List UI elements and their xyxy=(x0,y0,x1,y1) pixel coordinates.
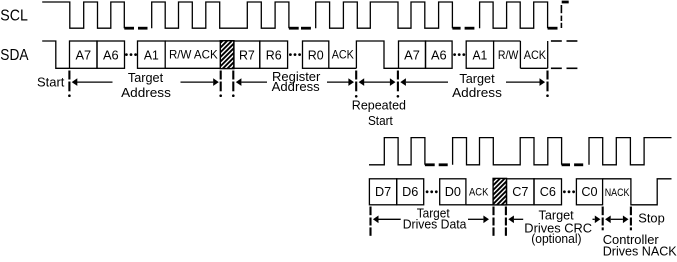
svg-text:A6: A6 xyxy=(103,48,119,63)
label Target Drives CRC (optional) xyxy=(524,208,592,246)
svg-text:Address: Address xyxy=(272,79,320,94)
svg-text:Address: Address xyxy=(452,85,502,100)
svg-text:C7: C7 xyxy=(512,184,528,199)
wire SCL row1 pulses R0,ACK,repeated-start,A7,A6 xyxy=(316,2,453,28)
ellipsis dots A6..A1 (2nd) xyxy=(453,53,465,56)
label Register Address xyxy=(272,69,321,94)
bit box D0 (data) xyxy=(440,179,466,205)
bit box C6 (CRC) xyxy=(534,179,562,205)
arrow target-address-1 right xyxy=(181,78,219,86)
node marker hatched-right (row2) xyxy=(505,207,507,236)
bit box A6 (target address 2) xyxy=(426,41,453,68)
arrow register-address left xyxy=(236,78,267,86)
svg-text:Target: Target xyxy=(459,71,495,86)
svg-text:R/W ACK: R/W ACK xyxy=(169,48,218,62)
svg-text:Start: Start xyxy=(368,113,393,128)
arrow target-address-2 left xyxy=(400,78,448,86)
wire SCL row1 pulses 1-3 (A7,A6) xyxy=(42,2,124,28)
bit box C0 (CRC) xyxy=(576,179,602,205)
svg-text:C0: C0 xyxy=(581,184,597,199)
node marker hatched-left (row2) xyxy=(492,207,494,236)
wire SCL row1 break dashes after R6 xyxy=(289,27,311,30)
node marker repeated-start-left xyxy=(355,71,358,98)
wire SCL row2 pulses D7,D6 xyxy=(369,138,425,165)
wire SCL row1 end bold low dash xyxy=(548,27,558,30)
bus cell R/W ACK (write) xyxy=(165,41,220,68)
arrow controller-drives-nack span xyxy=(605,216,628,224)
wire SCL row1 dashed continuation rising edge xyxy=(560,5,562,28)
wire SCL row1 break dashes after A6 xyxy=(124,27,147,30)
cell NACK high + stop condition (SDA falls then rises) xyxy=(603,179,672,205)
wire SDA repeated start (rise, high, fall while SCL high) xyxy=(356,41,398,68)
wire SDA row1 start condition (high then falling edge) xyxy=(42,41,69,68)
node marker hatched-left (row1) xyxy=(219,71,222,97)
net label SDA xyxy=(0,47,28,64)
arrow target-drives-crc right xyxy=(593,216,601,224)
svg-text:R0: R0 xyxy=(308,48,324,63)
svg-text:Drives NACK: Drives NACK xyxy=(603,243,677,257)
svg-text:D7: D7 xyxy=(375,184,391,199)
label Target Address (1) xyxy=(121,70,171,100)
wire SCL row2 break dashes after C6 xyxy=(562,163,584,166)
svg-text:Address: Address xyxy=(121,85,171,100)
wire SCL row2 pulses D0,ACK,C7,C6 xyxy=(453,138,562,165)
svg-text:Repeated: Repeated xyxy=(352,98,406,113)
svg-text:C6: C6 xyxy=(540,184,556,199)
wire SCL row1 pulses A1,R/W,ACK (2nd) xyxy=(480,2,548,28)
svg-text:Stop: Stop xyxy=(638,211,665,226)
arrow target-drives-crc left xyxy=(508,216,523,224)
svg-text:A1: A1 xyxy=(144,48,159,63)
bit box R0 (register address) xyxy=(303,41,329,68)
bit box R6 (register address) xyxy=(260,41,288,68)
node marker CRC-end xyxy=(602,207,604,231)
svg-text:R/W: R/W xyxy=(498,48,519,62)
arrow target-drives-data left xyxy=(373,216,401,224)
svg-text:Start: Start xyxy=(37,75,65,90)
cell ACK low after data xyxy=(466,186,493,205)
ellipsis dots R6..R0 xyxy=(289,53,301,56)
svg-text:A1: A1 xyxy=(472,48,487,63)
cell ACK low (2nd address) xyxy=(520,48,547,68)
svg-text:SDA: SDA xyxy=(0,47,28,64)
label Target Address (2) xyxy=(452,71,502,100)
wire SDA row1 end vertical xyxy=(547,41,549,68)
hatched break box (row1) xyxy=(190,35,268,71)
wire SCL row2 break dashes after D6 xyxy=(425,163,448,166)
svg-text:A7: A7 xyxy=(404,48,420,63)
svg-text:D6: D6 xyxy=(402,184,418,199)
svg-text:NACK: NACK xyxy=(605,187,630,199)
label Controller Drives NACK xyxy=(603,232,677,259)
svg-text:Drives Data: Drives Data xyxy=(403,217,468,232)
ellipsis dots A6..A1 xyxy=(125,53,137,56)
cell ACK low after R0 xyxy=(329,48,357,69)
svg-text:D0: D0 xyxy=(445,184,461,199)
wire SCL row1 continuation high dash xyxy=(562,1,569,4)
svg-text:ACK: ACK xyxy=(332,48,354,62)
bit box A1 (target address 1) xyxy=(138,41,166,68)
label Repeated Start xyxy=(352,98,406,129)
bit box A7 (target address 1) xyxy=(70,41,98,68)
bit box A7 (target address 2) xyxy=(399,41,426,68)
wire SCL row1 break dashes after A6 (2nd) xyxy=(452,27,474,30)
bit box D7 (data) xyxy=(369,179,396,205)
arrow repeated-start span xyxy=(359,78,396,86)
svg-text:A7: A7 xyxy=(75,48,91,63)
wire SCL row2 pulses C0,NACK and stop (stays high) xyxy=(589,138,672,165)
label Stop xyxy=(638,211,665,226)
ellipsis dots D6..D0 xyxy=(426,190,438,193)
svg-text:ACK: ACK xyxy=(469,186,489,198)
label Start xyxy=(37,75,65,90)
cell R/W high (read) xyxy=(494,41,521,68)
svg-text:SCL: SCL xyxy=(0,8,28,25)
bit box A6 (target address 1) xyxy=(97,41,125,68)
svg-text:A6: A6 xyxy=(431,48,447,63)
bit box D6 (data) xyxy=(397,179,424,205)
svg-text:(optional): (optional) xyxy=(531,231,581,246)
svg-text:R6: R6 xyxy=(266,48,282,63)
bit box A1 (target address 2) xyxy=(466,41,493,68)
svg-text:Target: Target xyxy=(128,70,164,85)
node marker hatched-right (row1) xyxy=(232,71,235,97)
svg-text:ACK: ACK xyxy=(524,48,546,62)
label Target Drives Data xyxy=(403,205,468,231)
bit box R7 (register address) xyxy=(234,41,260,68)
arrow target-drives-data right xyxy=(468,216,489,224)
bit box C7 (CRC) xyxy=(507,179,535,205)
node marker row1-end xyxy=(546,71,549,97)
ellipsis dots C6..C0 xyxy=(563,190,575,193)
wire SCL row1 pulses A1,R/W,ACK,R7,R6 xyxy=(152,2,289,28)
node marker repeated-start-right xyxy=(397,71,400,98)
wire SDA row1 dashed continuation xyxy=(551,41,578,68)
node marker NACK-end xyxy=(630,207,632,231)
net label SCL xyxy=(0,8,28,25)
arrow target-address-1 left xyxy=(72,78,113,86)
hatched break box (row2) xyxy=(465,172,542,207)
node marker data-start xyxy=(369,207,371,236)
svg-text:R7: R7 xyxy=(239,48,255,63)
arrow target-address-2 right xyxy=(506,78,545,86)
node marker start (dashed) xyxy=(68,71,71,97)
arrow register-address right xyxy=(327,78,354,86)
